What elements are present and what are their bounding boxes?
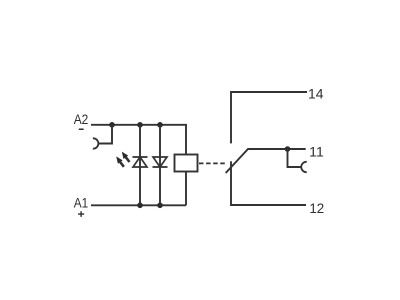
flyback diode cathode bar <box>153 166 168 168</box>
LED D1 cathode bar <box>133 156 148 158</box>
wire clamp branch 11 <box>288 149 302 167</box>
LED D1 triangle <box>133 157 147 167</box>
svg-text:14: 14 <box>308 86 324 101</box>
svg-text:12: 12 <box>309 201 324 216</box>
wire A2 rail to coil <box>91 125 186 155</box>
wire LED branch vertical <box>139 125 141 206</box>
polarity label minus <box>79 129 84 131</box>
svg-text:11: 11 <box>309 145 324 160</box>
relay coil K1 <box>175 155 198 172</box>
node junction dot diode branch bottom <box>157 203 163 209</box>
clamp terminal symbol A2 <box>93 138 99 148</box>
svg-text:A2: A2 <box>74 112 89 127</box>
node junction dot diode branch top <box>157 122 163 128</box>
node junction dot 11 <box>285 146 291 152</box>
wire diode branch vertical <box>159 125 161 206</box>
wire clamp branch A2 <box>98 125 112 144</box>
wire contact 12 NC <box>231 161 306 205</box>
svg-text:A1: A1 <box>74 195 88 210</box>
wire contact 14 NO <box>231 92 307 143</box>
clamp terminal symbol 11 <box>301 162 307 172</box>
node junction dot LED branch bottom <box>137 203 143 209</box>
polarity label plus <box>78 211 84 217</box>
flyback diode triangle <box>153 157 167 167</box>
node junction dot LED branch top <box>137 122 143 128</box>
wire A1 rail <box>91 204 186 206</box>
LED light arrow 2 <box>120 162 124 167</box>
node junction dot clamp branch <box>109 122 115 128</box>
LED light arrow 1 <box>126 157 130 162</box>
contact blade changeover <box>226 149 306 173</box>
wire coil bottom <box>185 172 187 206</box>
actuator dashed link coil to contact <box>199 162 226 164</box>
